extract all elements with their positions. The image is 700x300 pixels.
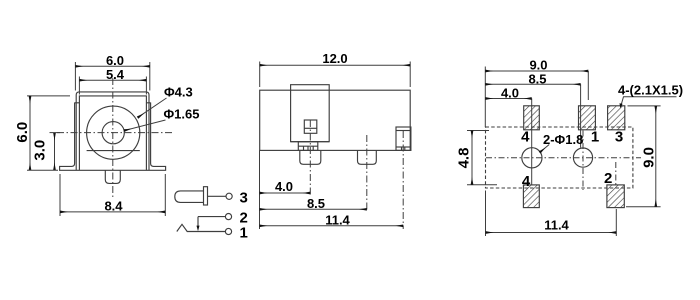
symbol plate (204, 187, 208, 205)
right switch pin inner top line (396, 130, 411, 132)
bottom extension line left (27, 169, 58, 171)
left extension line above (484, 67, 486, 128)
svg-text:4-(2.1X1.5): 4-(2.1X1.5) (618, 83, 683, 98)
dim 8.4: extension lines (59, 174, 61, 216)
svg-text:Φ4.3: Φ4.3 (164, 85, 193, 100)
dim 6.0 top: extension lines (74, 62, 76, 91)
dim 11.4 bottom: dimension line (486, 232, 617, 234)
small circle Phi1.65 (102, 122, 124, 144)
chord line in circle (87, 150, 140, 152)
svg-text:9.0: 9.0 (529, 58, 547, 73)
side body rectangle (260, 90, 411, 150)
dim 9.0 right: extension lines (628, 105, 661, 107)
centerline pin2 (366, 135, 368, 212)
right switch pin rect (396, 127, 411, 150)
front view bracket shield with feet (60, 103, 166, 171)
pad 4 top-left (524, 106, 540, 130)
symbol pin1 terminal (225, 228, 231, 234)
svg-text:6.0: 6.0 (106, 53, 124, 68)
svg-text:4.0: 4.0 (275, 179, 293, 194)
crimp tab dividers (303, 146, 305, 150)
pad 2 bottom-right (607, 185, 624, 208)
symbol pin2 line (198, 216, 226, 218)
svg-text:Φ1.65: Φ1.65 (164, 107, 200, 122)
symbol pin3 line (208, 195, 227, 197)
front face rounded rect (76, 92, 149, 170)
dim 4.8: extension lines (467, 130, 489, 132)
label Phi1.65 leader (124, 120, 166, 131)
dashed outline rect (486, 127, 633, 188)
vertical centerline (112, 78, 114, 197)
svg-text:4.8: 4.8 (456, 148, 473, 169)
pad 1 top (579, 106, 596, 130)
crimp tab inner horizontal (298, 145, 318, 147)
svg-text:4: 4 (522, 173, 531, 190)
window rect inside block (304, 120, 317, 133)
symbol pin2 arrow (197, 226, 200, 232)
pad 4 bottom-left (523, 185, 539, 208)
dim 9.0 right: dimension line (655, 106, 657, 207)
dim 4.0: dimension line (260, 192, 311, 194)
dim 6.0 left: dimension line (29, 96, 31, 170)
bracket fold tick right (146, 102, 150, 104)
bottom pin tab (105, 170, 120, 183)
svg-text:3.0: 3.0 (32, 140, 49, 161)
hole left 1.8 (522, 148, 542, 168)
dim 11.4 bottom: extension lines (485, 191, 487, 237)
dim 9.0 top: dimension line (485, 70, 588, 72)
svg-text:2-Φ1.8: 2-Φ1.8 (543, 132, 583, 147)
big circle Phi4.3 (87, 106, 140, 159)
svg-text:8.5: 8.5 (307, 196, 325, 211)
dim 6.0 top: dimension line (75, 65, 149, 67)
right switch pin inner bottom line (396, 146, 411, 148)
inner square 5.4 (79, 96, 146, 170)
centerline pin1 (309, 120, 311, 196)
svg-text:1: 1 (240, 225, 248, 242)
symbol pin1 zigzag and line (177, 224, 226, 231)
right hole vertical centerline (582, 131, 584, 191)
svg-text:8.5: 8.5 (528, 71, 546, 86)
dim 4.8: dimension line (471, 131, 473, 185)
right switch pin contact ticks (401, 147, 403, 150)
dim 8.5: dimension line (260, 208, 367, 210)
svg-text:3: 3 (615, 129, 623, 146)
extension for 8.5 right (580, 84, 582, 147)
dim 5.4: extension lines (78, 77, 80, 95)
svg-text:8.4: 8.4 (104, 198, 123, 213)
label 4-(2.1X1.5) leader (621, 97, 677, 107)
dim 11.4: dimension line (260, 225, 404, 227)
dim 8.5 top: dimension line (485, 83, 580, 85)
svg-text:5.4: 5.4 (106, 67, 125, 82)
svg-text:3: 3 (240, 190, 248, 207)
svg-text:11.4: 11.4 (544, 218, 569, 233)
pad2 vertical centerline above (615, 162, 617, 185)
pin 1 tab (front) (300, 150, 321, 164)
hole right 1.8 (573, 148, 592, 167)
symbol pin3 terminal (226, 193, 232, 199)
svg-text:9.0: 9.0 (641, 147, 658, 168)
left column extension line (531, 99, 533, 186)
pin 2 tab (middle) (358, 150, 377, 164)
label Phi4.3 leader (138, 98, 167, 118)
symbol pin2 vertical (197, 217, 199, 228)
window inner line (304, 127, 317, 129)
block bottom edge (291, 141, 330, 143)
left extension line below body (259, 150, 261, 229)
barrel block on top (291, 85, 330, 142)
svg-text:4: 4 (521, 129, 530, 146)
dim 3.0: extension tick at centerline (50, 132, 61, 134)
svg-text:11.4: 11.4 (325, 213, 350, 228)
svg-text:4.0: 4.0 (501, 86, 519, 101)
extension for 9.0 right (587, 71, 589, 100)
horizontal centerline (57, 132, 172, 134)
dim 5.4: dimension line (79, 79, 146, 81)
dim 12.0: dimension line (260, 64, 411, 66)
dim 3.0: dimension line (54, 133, 56, 171)
centerline right pin (402, 131, 404, 229)
bracket fold tick left (75, 102, 80, 104)
svg-text:1: 1 (591, 129, 599, 146)
svg-text:12.0: 12.0 (322, 51, 347, 66)
symbol barrel pin 3 (175, 191, 204, 203)
horizontal centerline (486, 157, 641, 159)
dim 6.0 left: extension line top (27, 95, 70, 97)
pad 3 top-right (608, 106, 625, 130)
dim 8.4: dimension line (60, 211, 165, 213)
symbol pin2 terminal (225, 214, 231, 220)
svg-text:6.0: 6.0 (14, 122, 31, 143)
label 2-phi1.8 leader (540, 145, 550, 153)
dim 4.0 top: dimension line (485, 98, 531, 100)
crimp tab under block (298, 142, 318, 151)
svg-text:2: 2 (604, 170, 612, 187)
dim 12.0: extension lines (259, 62, 261, 88)
